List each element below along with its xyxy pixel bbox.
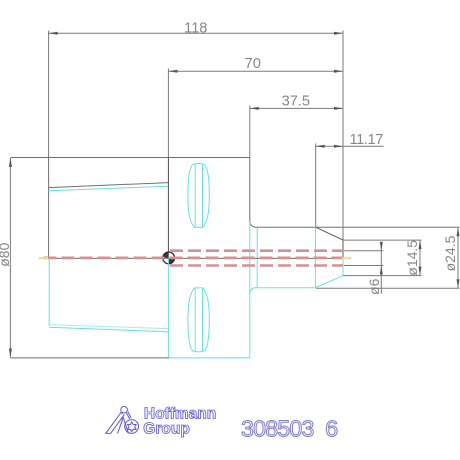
- yellow tick left: [39, 257, 49, 259]
- step face upper x250 (gray): [249, 158, 251, 222]
- inner bore slant lower pale: [49, 325, 168, 329]
- svg-text:308503 6: 308503 6: [241, 415, 337, 441]
- extension line left face: [48, 31, 50, 158]
- lower lens slot: [188, 288, 209, 352]
- svg-text:Group: Group: [143, 421, 190, 438]
- dia14.5 extension lines: [343, 239, 422, 241]
- neck top edge + dia24.5 top extension: [256, 226, 460, 228]
- bottom edge cyan: [170, 357, 250, 359]
- yellow tick right: [342, 257, 351, 259]
- svg-text:11.17: 11.17: [349, 132, 383, 148]
- dimension dia24.5: [457, 227, 459, 288]
- part top edge + dia80 top extension: [10, 157, 249, 159]
- dimension 118: [49, 32, 343, 34]
- part bottom edge gray left + dia80 bottom extension: [10, 357, 169, 359]
- upper lens slot: [188, 163, 209, 227]
- bore dia6 hidden line lower (red dashes): [170, 264, 343, 267]
- logo icon: [106, 406, 139, 433]
- svg-text:37.5: 37.5: [282, 93, 310, 109]
- dimension dia6: [380, 244, 382, 294]
- lower taper cone cyan: [315, 276, 343, 288]
- svg-text:ø24.5: ø24.5: [442, 235, 458, 271]
- dia6 extension lines: [344, 250, 383, 252]
- fillet upper: [250, 222, 256, 228]
- step face lower (cyan, through center): [249, 222, 251, 358]
- internal edge x168 lower (cyan): [167, 258, 169, 358]
- dimension 70: [168, 70, 343, 72]
- extension line step x250: [249, 106, 251, 158]
- svg-text:118: 118: [184, 20, 207, 36]
- dimension dia80: [9, 158, 11, 358]
- internal edge x168 upper (dark): [167, 158, 169, 252]
- centerline red dashes: [44, 256, 344, 259]
- extension line mid edge x168: [167, 69, 169, 158]
- dimension dia14.5: [419, 240, 421, 276]
- right face upper (gray): [342, 240, 344, 258]
- extension line right face x343: [342, 31, 344, 241]
- inner bore slant upper gray: [49, 183, 169, 188]
- left face lower (cyan): [48, 259, 50, 326]
- centerline gray: [40, 257, 351, 259]
- fillet lower cyan: [250, 288, 256, 294]
- right face lower cyan: [342, 258, 344, 276]
- upper taper cone: [316, 227, 343, 240]
- fillet tangent edge x257 (cyan): [256, 227, 258, 287]
- bore dia6 hidden line upper (red dashes): [170, 249, 343, 252]
- node point circle: [163, 252, 175, 264]
- extension line taper start x316: [315, 144, 317, 228]
- dimension 37.5: [250, 107, 343, 109]
- svg-text:ø6: ø6: [366, 278, 382, 295]
- taper start edge x315 (cyan): [314, 227, 316, 287]
- inner bore slant upper cyan: [49, 186, 169, 191]
- dimension 11.17: [316, 145, 384, 147]
- dia24.5 bottom extension: [316, 287, 460, 289]
- svg-text:ø14.5: ø14.5: [404, 240, 420, 276]
- left face upper (gray): [48, 158, 50, 258]
- inner bore slant lower cyan: [49, 327, 168, 332]
- svg-text:ø80: ø80: [0, 242, 12, 266]
- svg-text:70: 70: [245, 56, 261, 72]
- neck bottom edge cyan: [256, 287, 316, 289]
